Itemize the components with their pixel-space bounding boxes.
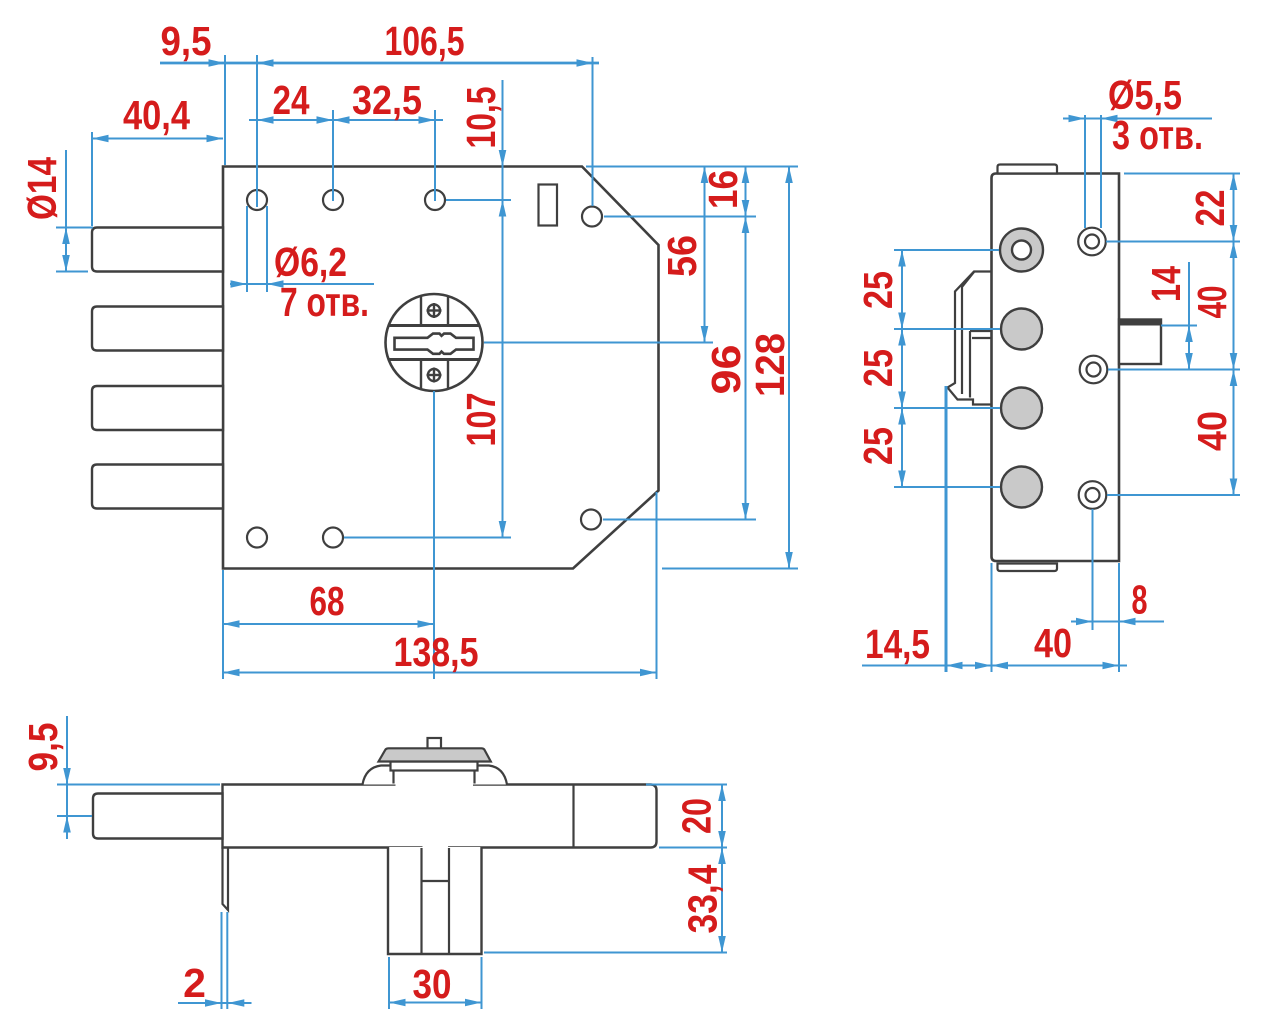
dim 128 [747, 167, 793, 569]
svg-text:7 отв.: 7 отв. [280, 279, 369, 325]
svg-text:128: 128 [747, 333, 793, 397]
bottom view: deadbolt (left) [93, 794, 223, 839]
side view: bolt end ring (top) [1000, 229, 1043, 272]
svg-text:14: 14 [1143, 266, 1189, 302]
svg-text:56: 56 [659, 235, 705, 277]
svg-text:24: 24 [273, 77, 310, 123]
svg-text:20: 20 [674, 798, 720, 834]
bottom view: base plate [223, 785, 657, 848]
side view: bolt end circle 3 [1001, 388, 1042, 429]
svg-text:10,5: 10,5 [458, 87, 504, 149]
svg-text:25: 25 [855, 427, 901, 465]
svg-text:Ø14: Ø14 [19, 157, 65, 220]
dim 16 [700, 167, 749, 217]
svg-text:138,5: 138,5 [394, 629, 479, 675]
svg-text:16: 16 [700, 170, 746, 209]
bottom view: cam nub [428, 738, 442, 750]
deadbolt B2 (front view, left) [92, 307, 223, 351]
svg-text:3 отв.: 3 отв. [1112, 112, 1203, 158]
dim chain 25x3 [855, 250, 1000, 487]
bottom view: plate edge eraser between cam legs [396, 782, 474, 789]
side view: screw hole W2 [1080, 356, 1108, 384]
svg-text:40: 40 [1189, 411, 1235, 451]
svg-text:14,5: 14,5 [865, 621, 930, 667]
escutcheon bottom tab [421, 360, 448, 389]
svg-text:33,4: 33,4 [680, 864, 726, 933]
front view: lock case plate outline [223, 167, 659, 569]
deadbolt B1 (front view, left) [92, 228, 223, 272]
dim 56 [659, 167, 708, 343]
mounting hole H6 (bottom) [323, 528, 343, 548]
svg-text:22: 22 [1187, 190, 1233, 227]
svg-text:9,5: 9,5 [20, 723, 66, 772]
escutcheon horizontal band [389, 326, 480, 360]
rectangular slot opening (top right) [539, 185, 558, 226]
dim 22 [1124, 174, 1240, 242]
deadbolt B3 (front view, left) [92, 386, 223, 430]
svg-text:40: 40 [1189, 286, 1235, 319]
svg-text:40,4: 40,4 [123, 92, 190, 138]
dim Ø5,5 3 holes callout [1063, 72, 1212, 228]
ext lines right side [484, 167, 798, 569]
dim Ø14 bolt diameter [19, 150, 93, 272]
svg-text:96: 96 [703, 345, 749, 395]
mounting hole H7 (bottom right) [581, 510, 601, 530]
dim 40,4 bolt length [92, 92, 223, 226]
lever keyway slot [395, 334, 474, 354]
mounting hole H3 [425, 190, 445, 210]
side view: faceplate lip bottom [998, 564, 1058, 572]
svg-text:25: 25 [855, 349, 901, 387]
bottom view: cam legs [394, 771, 475, 784]
svg-text:32,5: 32,5 [352, 77, 422, 123]
dim 40 upper right [1106, 242, 1240, 370]
svg-text:68: 68 [310, 578, 345, 624]
mounting hole H5 (bottom) [247, 528, 267, 548]
bottom view: cam tier bar [391, 762, 478, 771]
bottom view: plate edge gap eraser [423, 845, 449, 851]
side view: latch lever (left profile) [948, 272, 992, 405]
side view: faceplate lip top [998, 165, 1058, 174]
mounting hole H4 (top right) [582, 207, 602, 227]
escutcheon top tab [421, 297, 448, 326]
svg-text:2: 2 [183, 960, 206, 1006]
dim 14,5 and 40 bottom [862, 386, 1127, 672]
side view: square bolt stub (right) [1119, 320, 1161, 365]
svg-text:40: 40 [1034, 620, 1072, 666]
svg-text:106,5: 106,5 [385, 18, 465, 64]
side view: bolt end circle 4 [1001, 467, 1042, 508]
svg-text:30: 30 [413, 961, 452, 1007]
bottom view: stem slot [422, 848, 450, 953]
dim 14 stub [1143, 262, 1197, 370]
svg-text:8: 8 [1132, 577, 1148, 623]
bottom view: stem housing [388, 847, 482, 954]
dim 33,4 [680, 848, 726, 953]
side view: screw hole W3 [1079, 481, 1107, 509]
dim 138,5 [223, 492, 657, 679]
dim 9,5 bottom view [20, 716, 220, 839]
dim 30 stem [389, 957, 482, 1009]
dim 8 [1071, 509, 1164, 630]
dim Ø6,2 7 holes callout [230, 206, 374, 325]
side view: bolt end circle 2 [1001, 309, 1042, 350]
escutcheon screw S1 [427, 303, 442, 318]
mounting hole H1 [247, 190, 267, 210]
bottom view: thin tab under plate [223, 848, 229, 911]
svg-text:25: 25 [855, 271, 901, 309]
mounting hole H2 [323, 190, 343, 210]
dim 24 and 32,5 [249, 77, 443, 201]
side view: lock case body [992, 174, 1120, 562]
deadbolt B4 (front view, left) [92, 465, 223, 509]
bottom view: cam shoulders [363, 766, 508, 785]
dim 10,5 and 107 vertical [344, 80, 511, 538]
dim 40 lower right [1107, 370, 1240, 496]
side view: screw hole W1 [1078, 228, 1106, 256]
svg-text:9,5: 9,5 [161, 18, 212, 64]
bottom view: case/faceplate divider [572, 785, 574, 848]
dim 96 [703, 217, 749, 520]
dim 2 tab [178, 912, 252, 1009]
dim 20 plate thickness [646, 785, 727, 848]
ext line stem bottom [484, 952, 727, 954]
keyhole escutcheon outer circle [386, 294, 483, 391]
dim 68 [223, 391, 434, 679]
bottom view: cam plateau [379, 748, 491, 761]
dim 9,5 and 106,5 top line [160, 18, 599, 207]
escutcheon screw S2 [427, 368, 442, 383]
svg-text:107: 107 [458, 393, 504, 447]
